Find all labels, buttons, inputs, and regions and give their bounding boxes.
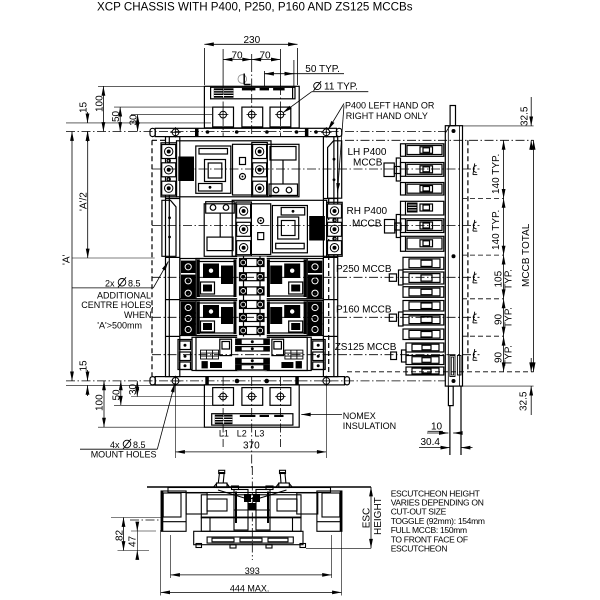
dim 50 TYP leader — [265, 60, 345, 86]
mccb pitch boundary dashed lines — [347, 198, 534, 371]
svg-text:RIGHT HAND ONLY: RIGHT HAND ONLY — [346, 111, 428, 121]
dim 32.5 top — [462, 97, 534, 150]
row2 left blank plate — [162, 200, 176, 256]
svg-text:ESCUTCHEON: ESCUTCHEON — [391, 544, 448, 554]
svg-text:140 TYP.: 140 TYP. — [491, 210, 502, 250]
side ZS125 profile — [391, 343, 444, 375]
back plate dashed outline — [152, 140, 329, 376]
2x8.5 leader — [72, 262, 168, 288]
dim 370 — [176, 385, 327, 458]
escutcheon face line — [147, 486, 371, 488]
mount hole centreline top — [66, 131, 446, 133]
right toggle clamp — [276, 470, 293, 487]
row4 P160 MCCBs — [180, 301, 323, 336]
svg-text:TYP.: TYP. — [504, 345, 515, 366]
pad centrelines bottom — [223, 377, 280, 470]
bottom busbar plate — [204, 385, 299, 427]
dim 15 top — [66, 112, 211, 142]
svg-text:ADDITIONAL: ADDITIONAL — [97, 291, 151, 301]
svg-text:230: 230 — [244, 35, 261, 46]
right step block — [297, 493, 318, 514]
side LH P400 profile — [384, 144, 444, 195]
dim 15 bottom — [66, 370, 204, 396]
svg-text:50: 50 — [112, 389, 123, 401]
top boundary dash-dot line — [345, 139, 534, 141]
dim 30 top — [131, 115, 212, 132]
bottom hatch block — [215, 415, 233, 424]
svg-text:15: 15 — [79, 101, 90, 113]
dim ESC HEIGHT — [306, 487, 371, 548]
dim 32.5 bottom — [462, 358, 534, 415]
svg-text:'A'>500mm: 'A'>500mm — [97, 320, 142, 330]
svg-text:NOMEX: NOMEX — [343, 411, 376, 421]
svg-text:15: 15 — [79, 360, 90, 372]
svg-text:TYP.: TYP. — [504, 307, 515, 328]
svg-text:MCCB: MCCB — [353, 158, 383, 169]
pad centrelines top — [223, 49, 280, 86]
dim 30 bottom — [131, 381, 212, 397]
svg-text:L1: L1 — [219, 429, 229, 439]
dim 50 top — [114, 107, 212, 131]
svg-text:30: 30 — [128, 383, 139, 395]
svg-text:370: 370 — [243, 441, 260, 452]
centreline symbols — [473, 163, 477, 360]
svg-text:8.5: 8.5 — [133, 440, 146, 450]
svg-text:L2: L2 — [237, 429, 247, 439]
row4 unit edge bars — [197, 302, 307, 335]
svg-text:'A'/2: 'A'/2 — [79, 192, 90, 211]
title — [97, 1, 413, 14]
left end block — [161, 491, 186, 531]
svg-text:4x: 4x — [110, 440, 120, 450]
svg-text:INSULATION: INSULATION — [343, 421, 396, 431]
escutcheon cutout curve — [218, 486, 287, 499]
top busbar plate — [204, 86, 299, 128]
bottom view centreline — [130, 466, 252, 560]
svg-text:140 TYP.: 140 TYP. — [491, 154, 502, 194]
svg-text:CENTRE HOLES,: CENTRE HOLES, — [81, 300, 154, 310]
dim A — [71, 132, 73, 381]
svg-text:P160 MCCB: P160 MCCB — [336, 305, 392, 316]
svg-text:XCP CHASSIS WITH P400, P250, P: XCP CHASSIS WITH P400, P250, P160 AND ZS… — [97, 1, 413, 14]
side P160 profile — [389, 301, 444, 340]
MCCB centrelines dash-dot — [152, 169, 480, 355]
dim 230 — [204, 44, 297, 85]
DIMENSIONS — [66, 44, 534, 595]
mount hole centreline bottom — [66, 380, 446, 382]
dim MCCB TOTAL — [533, 140, 535, 371]
dim 82 — [111, 518, 161, 551]
svg-text:ESC: ESC — [362, 508, 373, 529]
escutcheon protrusion — [194, 531, 306, 548]
svg-text:100: 100 — [95, 394, 106, 411]
svg-text:32.5: 32.5 — [519, 391, 530, 411]
dim A/2 — [72, 132, 155, 259]
side rail — [445, 126, 462, 386]
svg-text:47: 47 — [128, 535, 139, 547]
dim 140 TYP 1 — [503, 140, 505, 198]
side P250 profile — [389, 257, 444, 297]
side rail top tab — [450, 106, 455, 126]
dim 30.4 — [419, 447, 473, 449]
center busbar ladder — [236, 257, 270, 371]
dim 100 bottom — [98, 381, 204, 427]
right rail — [323, 137, 337, 377]
side rail bottom tab — [448, 386, 461, 455]
dim 50 bottom — [114, 381, 212, 405]
dim 90 TYP 2 — [503, 336, 505, 372]
dim 393 — [171, 535, 332, 578]
svg-text:444 MAX.: 444 MAX. — [230, 583, 270, 593]
svg-text:'A': 'A' — [62, 254, 73, 265]
row3 P250 MCCBs — [180, 259, 323, 299]
svg-text:30.4: 30.4 — [421, 437, 441, 448]
svg-text:70: 70 — [232, 51, 244, 62]
central body band — [201, 490, 301, 531]
escutcheon plane dashed line — [467, 140, 469, 371]
top connector dashes — [242, 88, 285, 91]
bottom connector dashes — [240, 415, 284, 417]
svg-text:TYP.: TYP. — [504, 269, 515, 290]
top pad L1 — [213, 107, 234, 127]
FRONT VIEW — [150, 86, 350, 427]
svg-text:WHEN: WHEN — [124, 310, 152, 320]
svg-text:32.5: 32.5 — [520, 106, 531, 126]
svg-text:ZS125 MCCB: ZS125 MCCB — [335, 342, 397, 353]
svg-text:HEIGHT: HEIGHT — [373, 497, 384, 535]
rail row boundary lines — [166, 199, 338, 337]
bottom rail — [150, 376, 350, 386]
BOTTOM VIEW — [130, 466, 371, 560]
side RH P400 profile — [385, 201, 444, 251]
svg-text:10: 10 — [431, 422, 443, 433]
svg-text:MCCB TOTAL: MCCB TOTAL — [521, 223, 532, 287]
svg-text:2x: 2x — [105, 278, 115, 288]
row5 grid terminal blocks — [201, 350, 303, 359]
svg-text:L3: L3 — [254, 429, 264, 439]
row1 right blank plate — [328, 141, 342, 198]
svg-text:8.5: 8.5 — [128, 278, 141, 288]
dia 11 TYP leader — [283, 92, 368, 113]
dim 100 top — [98, 86, 204, 131]
dim 10 — [427, 432, 459, 434]
top rail — [150, 127, 342, 137]
svg-text:30: 30 — [129, 114, 140, 126]
row3 unit edge bars — [197, 260, 307, 298]
svg-text:RH P400: RH P400 — [347, 206, 388, 217]
dim 444 MAX — [161, 530, 342, 596]
dim 140 TYP 2 — [503, 198, 505, 255]
left rail — [166, 137, 180, 377]
top pad L3 — [270, 107, 291, 127]
row2 RH P400 MCCB — [204, 200, 342, 256]
left toggle clamp — [213, 470, 230, 487]
svg-text:393: 393 — [245, 566, 260, 576]
top hatch block — [214, 88, 234, 97]
row1 LH P400 MCCB — [161, 141, 299, 197]
svg-text:P250 MCCB: P250 MCCB — [336, 264, 392, 275]
dim 70 70 — [223, 59, 280, 61]
side rail bottom strips — [450, 356, 461, 377]
svg-text:11 TYP.: 11 TYP. — [324, 82, 358, 93]
front plate strip — [168, 488, 331, 493]
svg-text:MCCB: MCCB — [352, 219, 382, 230]
svg-text:70: 70 — [260, 51, 272, 62]
nomex leader — [301, 414, 342, 416]
mount holes leader — [80, 383, 175, 449]
svg-text:82: 82 — [115, 529, 126, 541]
right end block — [317, 491, 342, 531]
row5 ZS125 MCCBs — [178, 337, 325, 370]
SIDE VIEW — [152, 74, 534, 456]
P400 hand leaders — [328, 104, 344, 193]
top pad L2 — [242, 107, 263, 127]
svg-text:50 TYP.: 50 TYP. — [305, 64, 340, 75]
svg-text:100: 100 — [95, 95, 106, 112]
svg-text:P400 LEFT HAND OR: P400 LEFT HAND OR — [345, 101, 435, 111]
dim 90 TYP 1 — [503, 299, 505, 336]
left step block — [186, 493, 207, 514]
lower band — [201, 517, 301, 531]
svg-text:50: 50 — [111, 110, 122, 122]
dim 105 TYP — [503, 255, 505, 299]
svg-text:MOUNT HOLES: MOUNT HOLES — [91, 450, 157, 460]
dim 47 — [131, 522, 156, 559]
